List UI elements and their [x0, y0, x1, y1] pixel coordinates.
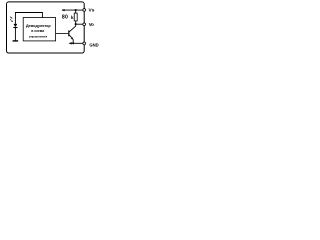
node collector junction [75, 23, 77, 25]
pin Vo [83, 23, 86, 26]
arrow to internal circuits (Vs) [61, 9, 64, 11]
ground bar [13, 40, 19, 42]
wire photodiode anode up and right to box top [15, 13, 42, 25]
node Vs/resistor junction [75, 9, 77, 11]
svg-text:и схема: и схема [31, 29, 44, 33]
wire photodiode cathode down [14, 28, 16, 41]
photodiode D1 [13, 24, 17, 28]
pin Vs [83, 9, 86, 12]
resistor R1 80k [74, 10, 77, 24]
module outline frame [7, 2, 85, 53]
svg-text:Демодулятор: Демодулятор [26, 24, 51, 28]
svg-text:Vo: Vo [89, 22, 94, 27]
pin GND [83, 42, 86, 45]
svg-text:80: 80 [62, 15, 68, 21]
arrow to internal circuits (GND) [69, 42, 72, 44]
transistor Q1 [68, 25, 75, 44]
box U1 demodulator and control circuit [23, 18, 55, 41]
svg-text:k: k [71, 15, 74, 21]
svg-text:Vs: Vs [89, 8, 95, 14]
node emitter junction [72, 42, 74, 44]
svg-text:GND: GND [89, 42, 98, 47]
light arrow 1 [10, 17, 13, 19]
wire collector to Vo pin [76, 23, 85, 25]
wire Vs rail [62, 9, 84, 11]
wire base from box [56, 32, 69, 34]
wire GND rail [72, 42, 84, 44]
light arrow 2 [10, 19, 13, 22]
svg-text:управления: управления [29, 34, 47, 38]
